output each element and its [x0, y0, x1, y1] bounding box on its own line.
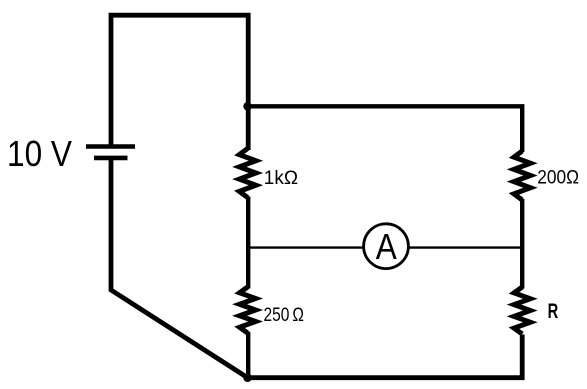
resistor R1 zigzag 1kOhm — [232, 147, 263, 200]
svg-text:200Ω: 200Ω — [537, 167, 579, 188]
svg-text:A: A — [376, 226, 397, 267]
ammeter M1 circle — [364, 224, 409, 269]
node junction dot bottom rail — [243, 373, 252, 382]
wire top loop: battery positive lead up, across, down to left branch — [111, 15, 248, 150]
wire bottom rail to right branch — [248, 335, 523, 378]
node junction dot top of left branch — [243, 102, 252, 111]
svg-text:10 V: 10 V — [7, 133, 72, 174]
resistor R3 zigzag 200Ohm — [507, 149, 538, 202]
battery B1 short plate — [94, 156, 128, 161]
resistor R4 zigzag unknown R — [507, 285, 538, 336]
wire bridge top rail from node to right branch — [248, 106, 522, 152]
wire battery negative lead down + diagonal to bottom node — [111, 158, 248, 378]
wire ammeter branch thin — [248, 246, 522, 248]
resistor R2 zigzag 250Ohm — [232, 285, 263, 335]
svg-text:1kΩ: 1kΩ — [264, 168, 298, 189]
svg-text:R: R — [548, 300, 559, 323]
wire right branch mid segment — [520, 199, 524, 289]
wire left branch mid segment — [246, 197, 250, 289]
wire left branch lower segment — [246, 332, 250, 378]
svg-text:250 Ω: 250 Ω — [264, 305, 305, 326]
battery B1 long plate — [86, 144, 135, 149]
